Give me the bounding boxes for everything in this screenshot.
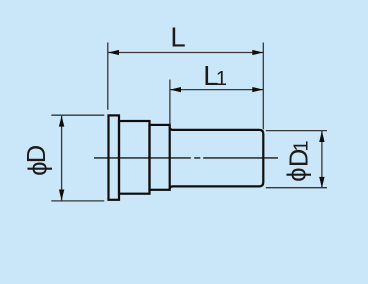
svg-text:D1: D1	[285, 140, 313, 167]
svg-text:ϕ: ϕ	[25, 162, 53, 176]
svg-text:D: D	[23, 145, 51, 163]
svg-text:L: L	[170, 22, 185, 53]
svg-text:ϕ: ϕ	[284, 168, 312, 182]
